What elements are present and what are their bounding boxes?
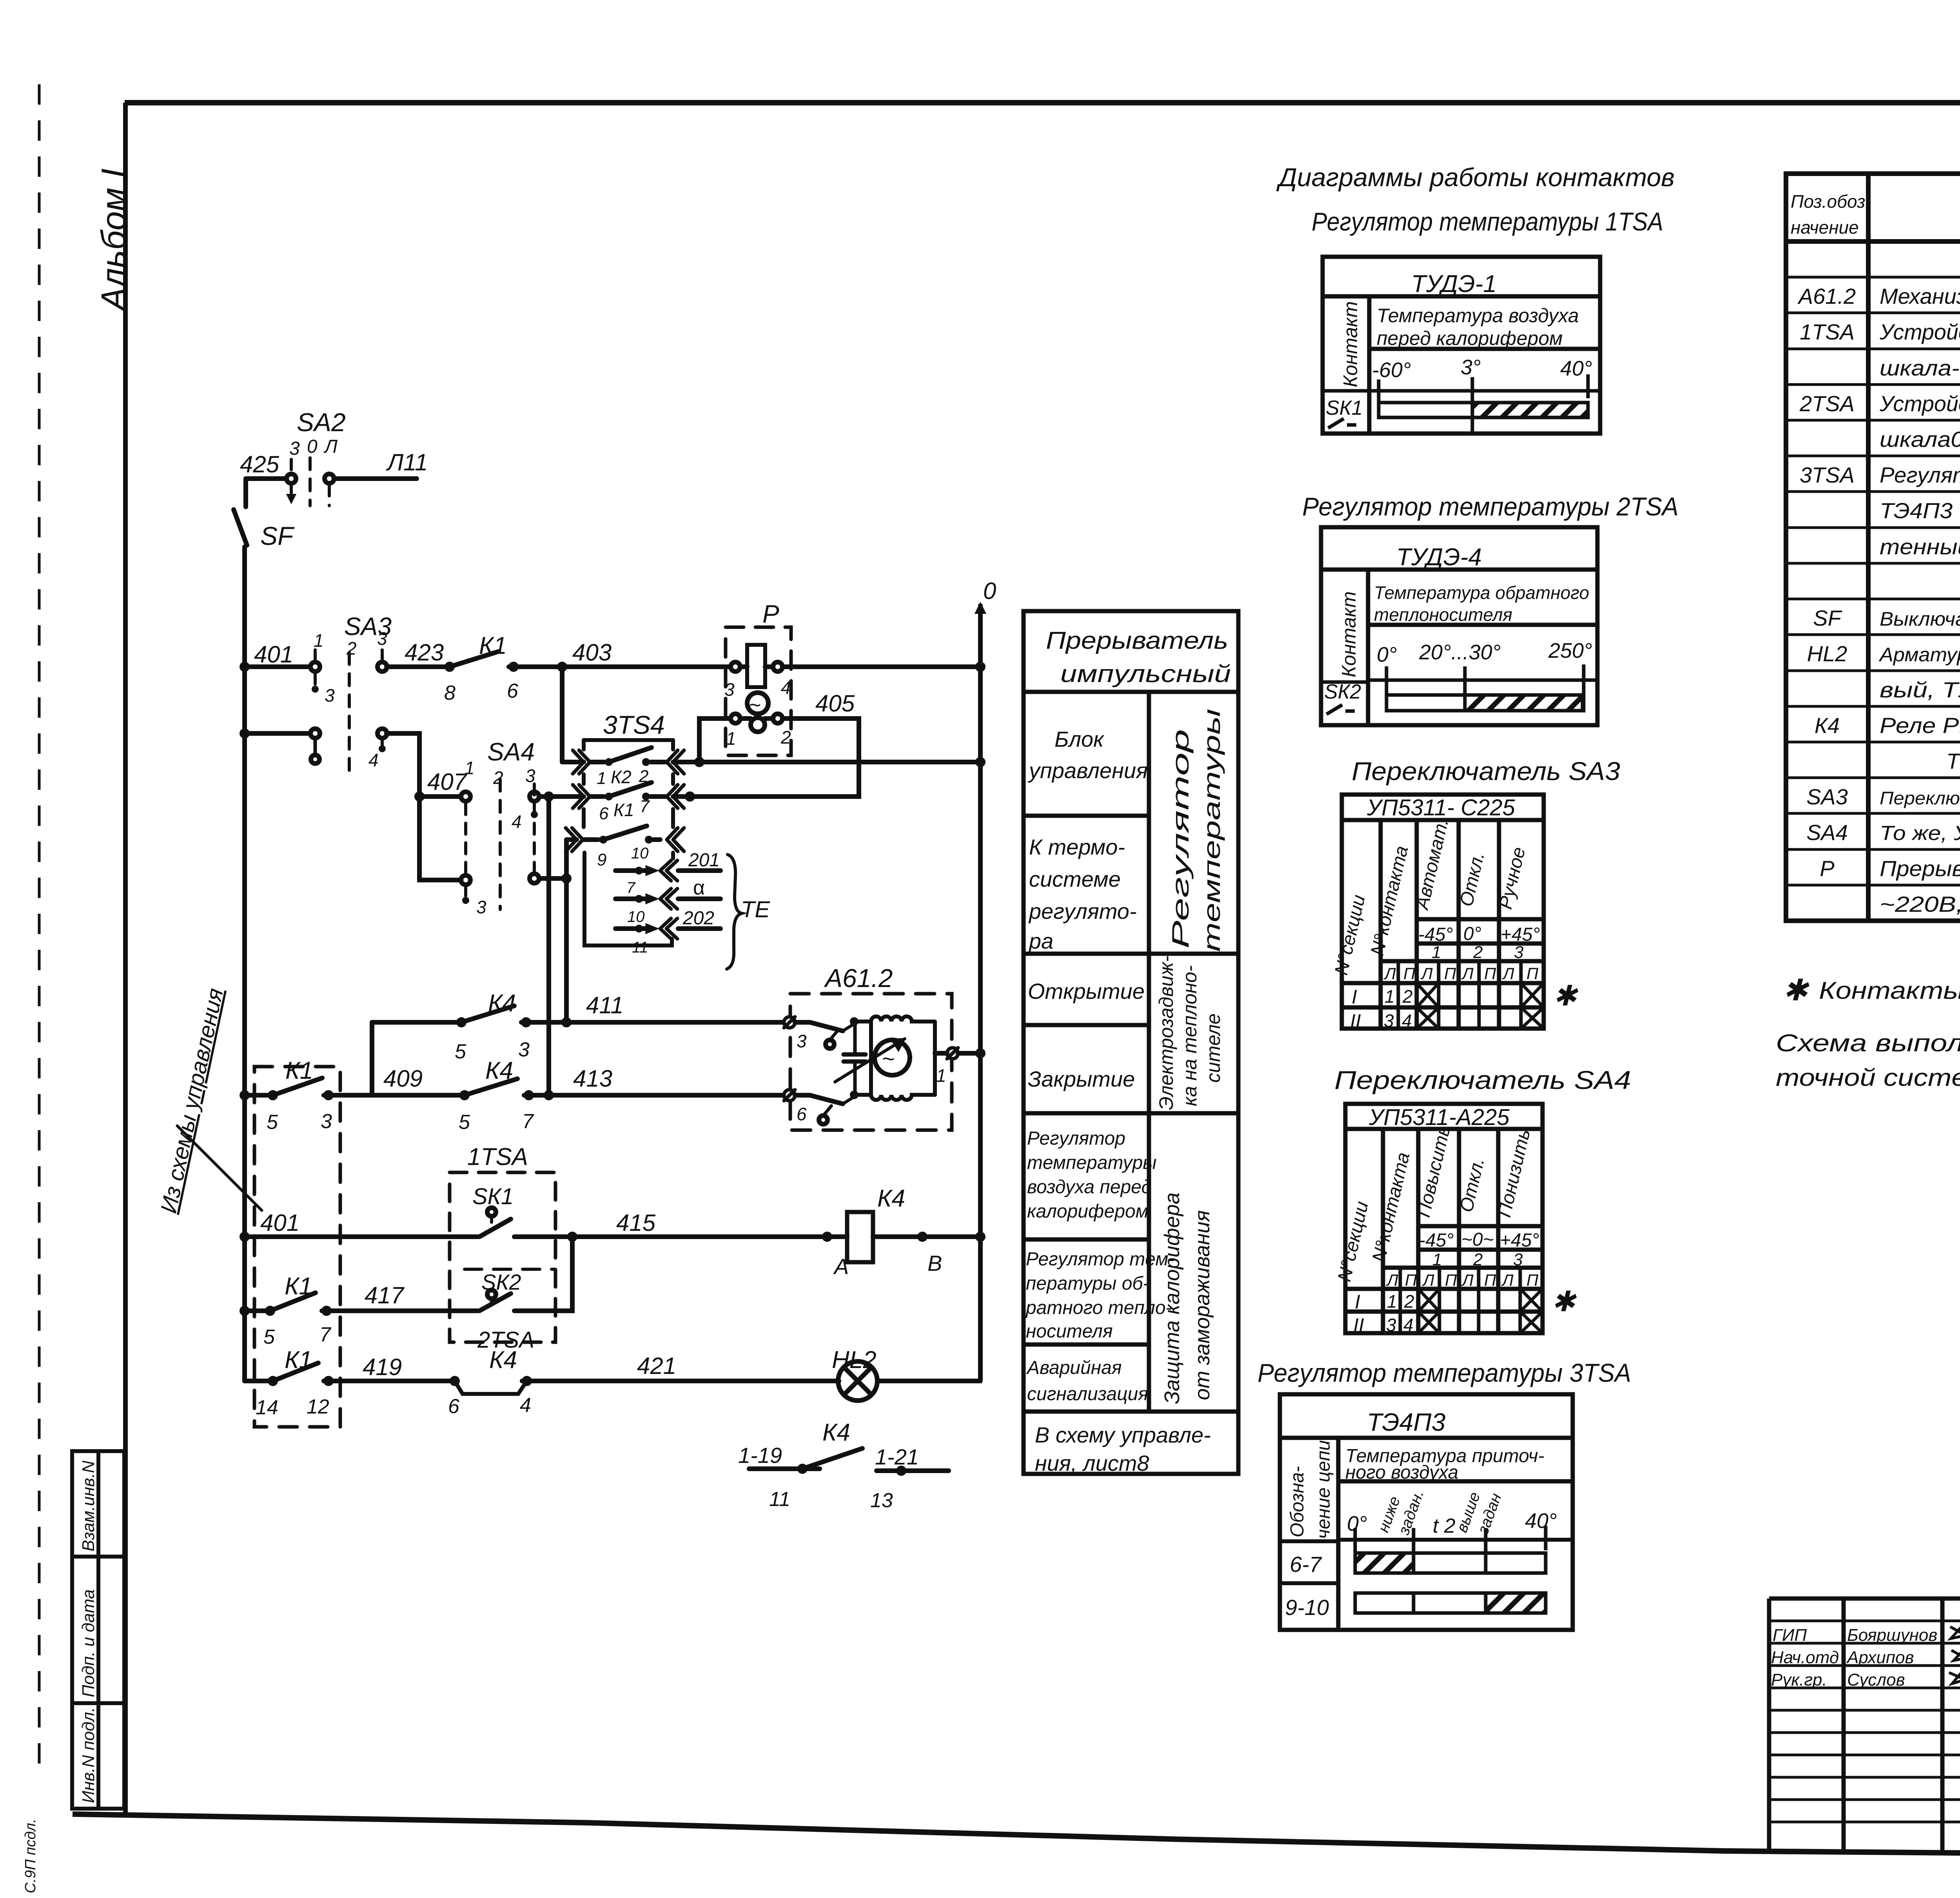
svg-text:5: 5 (267, 1111, 278, 1134)
svg-text:40°: 40° (1525, 1509, 1557, 1533)
svg-text:2: 2 (1402, 986, 1413, 1007)
svg-text:Блок: Блок (1054, 727, 1105, 751)
svg-text:1: 1 (1385, 986, 1395, 1007)
wire 423 (387, 664, 445, 669)
svg-text:-60°: -60° (1372, 358, 1411, 382)
svg-text:-45°: -45° (1419, 1230, 1454, 1251)
windings (850, 1017, 858, 1026)
svg-text:П: П (1484, 964, 1496, 983)
svg-text:1: 1 (726, 728, 736, 749)
contact K2 1-2 inside 3TS4 (605, 758, 613, 766)
svg-text:3: 3 (321, 1110, 332, 1133)
svg-text:✱: ✱ (1783, 974, 1809, 1007)
svg-text:К1: К1 (285, 1346, 312, 1374)
svg-text:вый, ТУ16-535.681-76: вый, ТУ16-535.681-76 (1880, 677, 1960, 702)
actuator motor (875, 1040, 910, 1075)
svg-text:415: 415 (616, 1210, 656, 1236)
svg-text:3: 3 (325, 685, 335, 706)
svg-text:температуры: температуры (1199, 709, 1225, 952)
svg-text:Открытие: Открытие (1028, 979, 1145, 1003)
svg-text:4: 4 (520, 1394, 531, 1417)
svg-text:Устройство терморегулирующее Т: Устройство терморегулирующее ТУДЭ-1, (1879, 319, 1960, 344)
svg-text:413: 413 (573, 1065, 612, 1092)
contact K1 pins 8-6 (445, 662, 455, 672)
svg-text:401: 401 (254, 641, 293, 668)
svg-text:П: П (1526, 964, 1539, 983)
node 0 bus line (978, 606, 983, 1380)
svg-text:4: 4 (368, 750, 379, 770)
svg-text:К4: К4 (822, 1419, 850, 1446)
thermostat contact SK1 (487, 1208, 496, 1216)
wire Л11 (334, 476, 417, 481)
svg-text:0°: 0° (1463, 924, 1481, 944)
svg-text:411: 411 (586, 992, 624, 1018)
actuator A61.2 pin 6 (784, 1090, 795, 1101)
svg-text:SК2: SК2 (1324, 680, 1361, 703)
svg-text:Переключатель SА4: Переключатель SА4 (1334, 1065, 1631, 1094)
svg-text:Устройство терморегулирующее Т: Устройство терморегулирующее ТУДЭ-4, (1879, 391, 1960, 416)
svg-text:3: 3 (377, 628, 387, 649)
svg-text:6: 6 (797, 1104, 807, 1124)
wire 425 (246, 476, 287, 481)
svg-text:8: 8 (444, 682, 456, 704)
svg-text:1: 1 (1432, 1250, 1442, 1269)
svg-text:3: 3 (1513, 1250, 1523, 1269)
svg-text:2: 2 (1473, 1250, 1483, 1269)
svg-text:2ТSА: 2ТSА (1799, 391, 1855, 416)
svg-text:II: II (1353, 1314, 1364, 1336)
svg-text:1: 1 (1432, 943, 1441, 962)
wire 409-413 row (245, 1093, 268, 1098)
svg-text:Аварийная: Аварийная (1026, 1357, 1122, 1378)
contact K4 5-7 wire 413 (459, 1090, 470, 1100)
svg-text:SК1: SК1 (472, 1184, 514, 1209)
svg-text:t 2: t 2 (1433, 1515, 1455, 1537)
contact K1 5-3 wire 409 (268, 1090, 278, 1100)
left margin strip table (72, 1451, 124, 1809)
leader line to K1 box (177, 1126, 262, 1210)
wire 419 (245, 1379, 268, 1383)
svg-text:Регулятор температуры 1ТSА: Регулятор температуры 1ТSА (1312, 207, 1663, 236)
svg-text:ТЕ: ТЕ (741, 897, 770, 922)
svg-text:SF: SF (1813, 606, 1842, 630)
svg-text:Л: Л (1461, 1271, 1474, 1289)
interrupter P lamp symbol (747, 693, 768, 714)
svg-text:3: 3 (1384, 1011, 1394, 1031)
svg-text:6-7: 6-7 (1290, 1552, 1322, 1577)
switch SA4 deck II contacts (530, 792, 539, 801)
svg-text:202: 202 (682, 908, 714, 929)
svg-text:7: 7 (319, 1323, 332, 1346)
svg-text:П: П (1526, 1271, 1539, 1289)
svg-text:409: 409 (383, 1065, 423, 1092)
svg-text:Взам.инв.N: Взам.инв.N (79, 1461, 98, 1551)
contact K4 6-4 wire 421 (450, 1376, 460, 1386)
svg-text:Л: Л (1383, 964, 1396, 983)
svg-text:температуры: температуры (1027, 1152, 1157, 1173)
wire 401 bottom / 415 (245, 1234, 477, 1239)
svg-text:I: I (1355, 1291, 1360, 1313)
svg-text:ТУДЭ-1: ТУДЭ-1 (1411, 270, 1497, 298)
thermostat contact SK2 (487, 1290, 496, 1299)
svg-text:401: 401 (260, 1210, 299, 1236)
svg-text:регулято-: регулято- (1028, 899, 1137, 924)
wire 3TS4 row9 to 411 (564, 840, 569, 1022)
svg-text:УП5311- С225: УП5311- С225 (1367, 795, 1515, 820)
aux contact K4 1-19/1-21 wires (749, 1466, 820, 1471)
actuator A61.2 pin 1 (947, 1048, 958, 1059)
svg-text:11: 11 (769, 1488, 790, 1511)
wire 417 (245, 1308, 265, 1313)
3TS4 contact row K1 (590, 794, 666, 799)
table SA3 (1342, 795, 1544, 1029)
svg-text:6: 6 (599, 804, 609, 823)
svg-text:П: П (1405, 1271, 1417, 1289)
svg-text:Регулятор тем-: Регулятор тем- (1026, 1249, 1174, 1270)
svg-text:+45°: +45° (1501, 924, 1540, 945)
svg-text:-45°: -45° (1418, 924, 1453, 945)
breaker SF blade (243, 479, 248, 507)
node wire 403 junction (557, 662, 567, 672)
svg-text:SF: SF (260, 521, 295, 550)
svg-text:~220В,50Гц, ТУ50-58-80: ~220В,50Гц, ТУ50-58-80 (1880, 892, 1960, 916)
svg-text:419: 419 (363, 1354, 402, 1380)
svg-text:1: 1 (1387, 1291, 1397, 1312)
svg-text:К1: К1 (285, 1273, 312, 1300)
svg-text:К1: К1 (285, 1057, 313, 1084)
svg-text:ТЭ4П3: ТЭ4П3 (1367, 1408, 1446, 1436)
svg-text:Регулятор: Регулятор (1027, 1128, 1125, 1149)
svg-text:Выключатель А63-МУЗ,2×10,ТУ16-: Выключатель А63-МУЗ,2×10,ТУ16-522,110-74 (1880, 608, 1960, 630)
contact 9-10 inside 3TS4 (599, 836, 607, 844)
svg-text:1ТSА: 1ТSА (1800, 319, 1855, 344)
svg-text:К4: К4 (488, 990, 516, 1017)
svg-text:Бояршунов: Бояршунов (1847, 1626, 1937, 1645)
page fold dash line (38, 84, 41, 1768)
svg-text:250°: 250° (1548, 639, 1592, 662)
svg-text:Регулятор температуры 2ТSА: Регулятор температуры 2ТSА (1302, 492, 1679, 521)
svg-text:3: 3 (724, 679, 735, 700)
svg-text:+45°: +45° (1500, 1230, 1539, 1251)
wire 405 run (694, 719, 859, 797)
table SA4 (1345, 1104, 1543, 1333)
footnotes (1776, 974, 1960, 1091)
svg-text:Контакты не используются.: Контакты не используются. (1819, 977, 1960, 1004)
svg-text:Инв.N подл.: Инв.N подл. (79, 1707, 98, 1803)
svg-text:SК1: SК1 (1326, 397, 1363, 419)
svg-text:В: В (927, 1251, 942, 1276)
svg-text:3: 3 (289, 438, 300, 459)
svg-text:3: 3 (797, 1031, 807, 1051)
svg-text:носителя: носителя (1026, 1321, 1113, 1342)
svg-text:То же, УП5311-А225УЗ,ТУ16-524.: То же, УП5311-А225УЗ,ТУ16-524.074-75 (1880, 822, 1960, 845)
svg-text:Реле РПУ2-362023УЗ ~220В, 50Гц: Реле РПУ2-362023УЗ ~220В, 50Гц, (1880, 713, 1960, 738)
svg-text:Электрозадвиж-: Электрозадвиж- (1155, 956, 1177, 1110)
svg-text:1: 1 (597, 769, 606, 788)
svg-text:4: 4 (512, 811, 522, 832)
svg-text:А61.2: А61.2 (824, 964, 893, 993)
svg-text:ка на теплоно-: ка на теплоно- (1179, 965, 1201, 1106)
svg-text:Температура воздуха: Температура воздуха (1377, 305, 1579, 327)
svg-text:К4: К4 (485, 1057, 513, 1084)
sensor TE lead 202 (615, 926, 651, 931)
node dots on left bus (240, 662, 250, 1316)
svg-text:П: П (1444, 964, 1456, 983)
svg-text:5: 5 (455, 1040, 466, 1063)
svg-text:403: 403 (572, 639, 612, 666)
svg-text:начение: начение (1791, 217, 1859, 238)
relay K1 contact group box (254, 1067, 340, 1427)
contact K1 5-7 wire 417 (265, 1306, 275, 1316)
svg-text:К4: К4 (1815, 713, 1840, 738)
svg-text:Суслов: Суслов (1847, 1670, 1905, 1689)
svg-text:✱: ✱ (1552, 1286, 1577, 1317)
svg-text:1-21: 1-21 (875, 1444, 919, 1469)
svg-text:Регулятор температуры электрич: Регулятор температуры электрический (1880, 463, 1960, 487)
svg-text:Л: Л (323, 436, 338, 457)
svg-text:Механизм исполнительный: Механизм исполнительный (1880, 284, 1960, 308)
svg-text:1: 1 (936, 1065, 946, 1086)
svg-text:Переключатель УП5311-С225УЗ,ТУ: Переключатель УП5311-С225УЗ,ТУ16-524.074… (1880, 788, 1960, 808)
svg-text:Арматура светосигнальная АСЛ11: Арматура светосигнальная АСЛ11У2, оранже (1878, 644, 1960, 666)
svg-text:0°: 0° (1347, 1512, 1367, 1535)
svg-text:SА3: SА3 (1806, 784, 1848, 809)
svg-text:Регулятор: Регулятор (1167, 729, 1194, 949)
legend table "Прерыватель импульсный" (1024, 611, 1238, 1474)
svg-text:Температура обратного: Температура обратного (1374, 582, 1589, 603)
svg-text:Схема выполнена для приточн: Схема выполнена для приточной системы П2… (1776, 1030, 1960, 1057)
svg-text:10: 10 (627, 908, 645, 925)
switch SA3 deck II contacts 4 (310, 729, 320, 738)
svg-text:201: 201 (688, 850, 720, 871)
svg-text:Л11: Л11 (386, 449, 428, 475)
svg-text:11: 11 (632, 939, 648, 956)
svg-text:3: 3 (1386, 1315, 1396, 1335)
wire 401 row (245, 664, 310, 669)
svg-text:12: 12 (307, 1395, 329, 1418)
contact K1 6-7 inside 3TS4 (605, 793, 613, 800)
svg-text:П: П (1403, 964, 1416, 983)
frame (125, 100, 1960, 105)
svg-text:Л: Л (1461, 964, 1474, 983)
wire row2 (245, 731, 310, 736)
svg-text:3ТSА: 3ТSА (1800, 463, 1855, 487)
svg-text:НL2: НL2 (832, 1346, 877, 1374)
sensor TE lead 201 (615, 868, 651, 873)
svg-text:шкала0°...250°С,ТУ25-02,281074: шкала0°...250°С,ТУ25-02,281074-78 (1880, 427, 1960, 452)
svg-text:ТЭ4П3 04.2, от 0°до 40°С,монта: ТЭ4П3 04.2, от 0°до 40°С,монтаж наг- (1880, 498, 1960, 523)
svg-text:6: 6 (448, 1395, 459, 1418)
svg-text:1ТSА: 1ТSА (467, 1143, 528, 1170)
svg-text:405: 405 (815, 690, 855, 717)
svg-text:Рук.гр.: Рук.гр. (1771, 1670, 1827, 1689)
sensor TE brace (727, 855, 742, 969)
svg-text:Л: Л (1502, 964, 1514, 983)
svg-text:SА4: SА4 (1806, 820, 1848, 845)
table TUDE-4 (1321, 527, 1597, 725)
lamp HL2 symbol (838, 1361, 877, 1401)
svg-text:2: 2 (780, 727, 791, 748)
svg-text:воздуха перед: воздуха перед (1027, 1177, 1152, 1198)
parts list table (1786, 174, 1960, 921)
svg-text:ТУДЭ-4: ТУДЭ-4 (1396, 544, 1482, 571)
svg-text:Прерыватель импульсный СИП-01У: Прерыватель импульсный СИП-01УМ (1880, 856, 1960, 881)
svg-text:Контакт: Контакт (1339, 301, 1361, 387)
svg-text:Контакт: Контакт (1338, 591, 1360, 677)
svg-text:Защита калорифера: Защита калорифера (1160, 1192, 1184, 1404)
svg-text:4: 4 (1403, 1315, 1414, 1335)
svg-text:5: 5 (459, 1111, 470, 1134)
svg-text:20°...30°: 20°...30° (1419, 641, 1501, 664)
svg-text:1-19: 1-19 (738, 1443, 782, 1468)
title block (1769, 1599, 1960, 1858)
svg-text:П: П (1445, 1271, 1457, 1289)
svg-text:Л: Л (1420, 964, 1433, 983)
svg-text:ГИП: ГИП (1773, 1626, 1807, 1645)
svg-text:417: 417 (365, 1282, 405, 1308)
svg-text:Нач.отд: Нач.отд (1771, 1648, 1839, 1667)
svg-text:II: II (1350, 1010, 1361, 1032)
svg-text:НL2: НL2 (1807, 641, 1847, 666)
svg-text:Поз.обоз: Поз.обоз (1791, 191, 1865, 212)
svg-text:системе: системе (1029, 867, 1121, 891)
svg-text:импульсный: импульсный (1060, 660, 1231, 688)
svg-text:ного воздуха: ного воздуха (1345, 1462, 1458, 1483)
svg-text:К1: К1 (479, 632, 507, 659)
svg-text:В схему управле-: В схему управле- (1035, 1423, 1211, 1447)
svg-text:Диаграммы работы контактов: Диаграммы работы контактов (1276, 163, 1675, 192)
svg-text:тенный,ТУ25-02(302,574180)-82: тенный,ТУ25-02(302,574180)-82 (1880, 534, 1960, 559)
svg-text:0: 0 (983, 578, 996, 604)
svg-text:13: 13 (870, 1489, 893, 1512)
svg-text:425: 425 (240, 451, 279, 477)
svg-text:423: 423 (405, 639, 444, 666)
svg-text:4: 4 (781, 677, 791, 698)
svg-text:Подп. и дата: Подп. и дата (79, 1590, 98, 1697)
3TS4 contact row 9-10 (583, 837, 660, 842)
3TS4 contact row K2 (590, 760, 666, 764)
wire 403 drop to 3TS4 (560, 667, 564, 762)
table TE4P3 (1280, 1394, 1573, 1630)
svg-text:10: 10 (631, 845, 649, 862)
svg-text:7: 7 (640, 797, 650, 816)
svg-text:3: 3 (518, 1038, 530, 1061)
svg-text:0°: 0° (1377, 643, 1397, 666)
svg-text:К4: К4 (489, 1346, 517, 1374)
svg-text:✱: ✱ (1553, 980, 1579, 1012)
svg-text:1: 1 (465, 758, 475, 778)
svg-text:9-10: 9-10 (1285, 1595, 1329, 1620)
svg-text:3: 3 (476, 897, 486, 917)
svg-text:7: 7 (626, 879, 636, 896)
svg-text:Прерыватель: Прерыватель (1046, 627, 1228, 654)
sensor TE lead alpha (615, 896, 651, 901)
contact K1 14-12 (268, 1376, 278, 1386)
svg-text:~0~: ~0~ (1461, 1229, 1494, 1250)
svg-text:управления: управления (1027, 758, 1148, 783)
svg-text:сигнализация: сигнализация (1027, 1384, 1148, 1404)
svg-text:точной системы П1 она анало: точной системы П1 она аналогична при tн … (1776, 1064, 1960, 1091)
svg-text:чение цепи: чение цепи (1313, 1440, 1334, 1539)
svg-text:α: α (693, 876, 705, 899)
svg-text:сителе: сителе (1202, 1013, 1224, 1083)
switch SA2 contact circles (287, 474, 296, 483)
svg-text:калорифером: калорифером (1027, 1201, 1149, 1222)
svg-text:1: 1 (314, 630, 324, 651)
svg-text:14: 14 (256, 1396, 278, 1419)
svg-text:Обозна-: Обозна- (1287, 1466, 1308, 1537)
svg-text:2: 2 (1404, 1291, 1414, 1312)
svg-text:SA4: SA4 (487, 738, 535, 766)
svg-text:Альбом I: Альбом I (94, 169, 133, 312)
switch SA3 deck I contacts 1-3 (310, 662, 320, 671)
svg-text:Переключатель SА3: Переключатель SА3 (1352, 757, 1620, 786)
wire 407 run (387, 733, 461, 880)
wire SA4 to 413 (546, 797, 551, 1095)
svg-text:~: ~ (749, 694, 761, 717)
svg-text:5: 5 (263, 1326, 275, 1348)
interrupter P heater element (747, 645, 765, 687)
svg-text:Р: Р (762, 600, 779, 628)
relay coil K4 (847, 1212, 873, 1262)
svg-text:3: 3 (1514, 943, 1524, 962)
svg-text:6: 6 (507, 680, 518, 702)
wire 411 (372, 1022, 457, 1095)
svg-text:К4: К4 (877, 1185, 905, 1212)
svg-text:ратного тепло-: ратного тепло- (1025, 1297, 1172, 1318)
svg-text:421: 421 (637, 1353, 676, 1379)
svg-text:40°: 40° (1560, 357, 1592, 380)
svg-text:А61.2: А61.2 (1797, 284, 1856, 308)
svg-text:Л: Л (1422, 1271, 1434, 1289)
svg-text:Р: Р (1820, 856, 1834, 881)
svg-text:Закрытие: Закрытие (1028, 1067, 1135, 1091)
svg-text:Регулятор температуры 3ТSА: Регулятор температуры 3ТSА (1258, 1358, 1631, 1387)
svg-text:шкала-60°...40°С,ТУ25-02,28107: шкала-60°...40°С,ТУ25-02,281074-78 (1880, 356, 1960, 380)
svg-text:7: 7 (522, 1110, 534, 1133)
svg-text:перед калорифером: перед калорифером (1377, 327, 1563, 349)
svg-text:П: П (1484, 1271, 1496, 1289)
svg-text:9: 9 (597, 850, 606, 869)
table TUDE-1 (1323, 257, 1600, 434)
contact K4 5-3 (456, 1017, 466, 1027)
switch SA4 deck I contacts (461, 792, 470, 801)
svg-text:3°: 3° (1461, 356, 1481, 379)
svg-text:0: 0 (307, 436, 318, 457)
svg-text:Архипов: Архипов (1846, 1648, 1914, 1667)
svg-text:Л: Л (1501, 1271, 1514, 1289)
svg-text:ТУ16-523,331-78: ТУ16-523,331-78 (1946, 749, 1960, 773)
svg-text:SA2: SA2 (297, 408, 346, 437)
actuator A61.2 pin 3 (784, 1017, 795, 1028)
wire 401 left bus (242, 547, 247, 1381)
capacitor in A61.2 (844, 1054, 866, 1062)
svg-text:К термо-: К термо- (1029, 835, 1125, 859)
svg-text:Л: Л (1386, 1271, 1398, 1289)
svg-text:С.9П псдл.: С.9П псдл. (22, 1819, 39, 1893)
svg-text:ния, лист8: ния, лист8 (1035, 1451, 1149, 1475)
svg-text:4: 4 (1402, 1011, 1412, 1031)
svg-text:А: А (833, 1254, 849, 1279)
svg-text:I: I (1352, 986, 1357, 1008)
svg-text:2: 2 (346, 638, 357, 659)
svg-text:3ТS4: 3ТS4 (603, 710, 665, 739)
svg-text:от замораживания: от замораживания (1191, 1210, 1214, 1400)
svg-text:теплоносителя: теплоносителя (1374, 604, 1512, 625)
svg-text:2: 2 (1473, 943, 1483, 962)
svg-text:К2: К2 (611, 767, 632, 787)
svg-text:ра: ра (1028, 929, 1053, 953)
